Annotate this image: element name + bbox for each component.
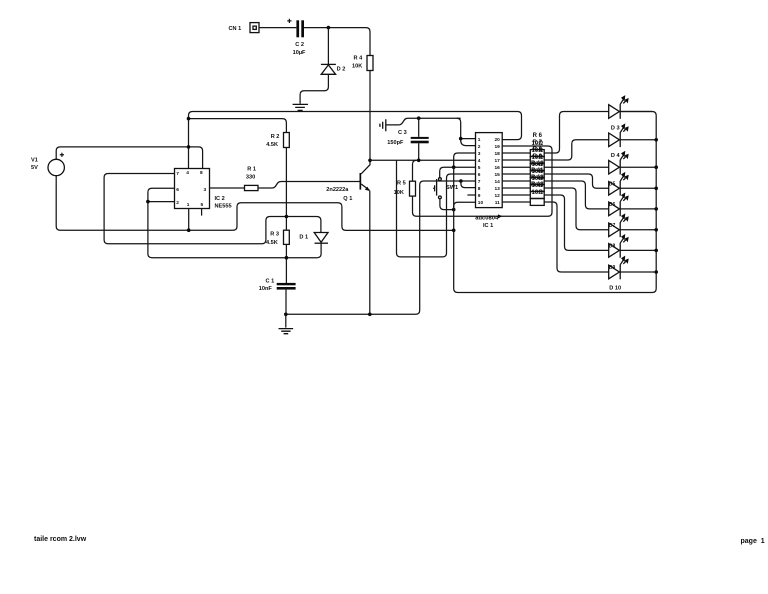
svg-text:7: 7 [176,171,179,177]
resistor R13 [530,182,544,205]
svg-text:D 4: D 4 [611,153,621,159]
svg-text:13: 13 [494,186,500,192]
svg-text:R 3: R 3 [270,231,279,237]
resistor R10 [530,161,544,184]
svg-text:page 1: page 1 [741,538,765,545]
LED D2 [609,95,653,119]
svg-text:10K: 10K [394,190,404,196]
LED D9 [609,256,657,280]
wire CN1 to C2 [259,27,296,29]
resistor R7 [530,140,544,163]
resistor R8 [530,147,544,170]
svg-text:8: 8 [478,186,481,192]
capacitor C3 [387,118,428,160]
svg-text:3: 3 [478,151,481,157]
svg-text:5V: 5V [31,165,38,171]
wire IC1 pin 3 to pin 5 node [454,153,476,167]
wire 555 pin 3 to R1 [210,187,245,189]
capacitor C1 [259,278,296,292]
svg-text:D 2: D 2 [337,66,346,72]
wire 555 pin 5 stub [201,209,203,216]
wire R4 to Q1 collector node [369,71,371,161]
svg-text:5: 5 [478,165,481,171]
svg-text:19: 19 [494,144,500,150]
svg-text:2n2222a: 2n2222a [326,187,349,193]
svg-text:6: 6 [478,172,481,178]
svg-text:11: 11 [495,200,500,206]
wire 555 pin 1 to ground bus [188,209,190,231]
wire clock node to IC1 pin 4 [370,159,476,161]
wire R1 to Q1 base [258,182,360,189]
wire 555 pin 7 to R3 top and D1 (bus D) [104,174,321,244]
svg-text:4: 4 [186,170,189,176]
LED D5 [609,172,657,196]
node pin 7 junction [459,179,463,183]
wire IC1 pin 10 to SW1 bottom node [454,202,476,209]
svg-text:6: 6 [176,187,179,193]
svg-text:V1: V1 [31,158,38,164]
resistor R1 [245,166,259,190]
node pins 2-6 junction [146,200,150,204]
wire SW1 bottom to ground column [440,199,454,210]
node LED return D3 [654,138,658,142]
svg-text:R 10: R 10 [531,161,544,167]
resistor R4 [352,56,373,71]
connector CN1 [229,23,260,33]
svg-text:16: 16 [494,165,500,171]
wire IC1 pin 9 stub [467,194,475,196]
wire node to D2 [327,28,329,65]
node LED return D8 [654,249,658,253]
wire V1+ to 555 pins 4 and 8 [56,147,202,169]
svg-text:R 5: R 5 [397,180,406,186]
node IC1 pin 1 junction [459,137,463,141]
svg-text:10: 10 [478,200,484,206]
svg-text:5: 5 [201,202,204,208]
wire R9 to LED D5 [544,174,609,188]
node LED return D4 [654,165,658,169]
svg-text:C 1: C 1 [266,278,275,284]
wire SW1 top to IC1 pin 5 [440,167,476,178]
wire R6 to LED D2 [544,112,609,154]
diode D2 [321,64,345,74]
node LED return D9 [654,270,658,274]
svg-text:IC 2: IC 2 [215,196,225,202]
wire R11 to LED D7 [544,188,609,230]
svg-text:R 9: R 9 [533,154,543,160]
wire ground column to LED return bus [454,112,657,293]
wire V+ rail (line A to IC1 pin 20) [189,112,522,169]
svg-text:IC 1: IC 1 [483,223,493,229]
node LED return D7 [654,228,658,232]
svg-text:10K: 10K [352,63,362,69]
svg-text:9: 9 [478,193,481,199]
svg-text:3: 3 [204,187,207,193]
svg-text:18: 18 [494,151,500,157]
svg-text:R 2: R 2 [271,134,280,140]
resistor R11 [530,168,544,191]
node Q1 emitter junction [368,313,372,317]
svg-text:R 1: R 1 [247,166,256,172]
node V1+ tee [187,145,191,149]
svg-text:8: 8 [200,170,203,176]
svg-text:17: 17 [494,158,500,164]
svg-text:R 4: R 4 [354,56,364,62]
svg-text:4.5K: 4.5K [266,142,278,148]
svg-text:2: 2 [176,200,179,206]
svg-text:R 8: R 8 [533,147,543,153]
wire R8 to LED D4 [544,166,609,168]
LED D3 [609,123,657,147]
ground (D2) [293,104,308,110]
wire ground bus (C1 to Q1 emitter to IC1 pins 7-8) [286,185,420,314]
svg-text:150pF: 150pF [387,140,404,146]
svg-text:7: 7 [478,179,481,185]
node ground bus C junction [452,229,456,233]
node C2/D2/R4 junction [327,26,331,30]
svg-text:R 12: R 12 [531,175,544,181]
wires IC1 pins 18-11 to resistor network [502,153,530,202]
wire R7 to LED D3 [544,140,609,160]
wire D1 cathode to bus E [317,243,321,258]
svg-text:CN 1: CN 1 [229,26,242,32]
svg-text:2: 2 [478,144,481,150]
node line B tee [187,117,191,121]
svg-text:4: 4 [478,158,481,164]
diode D1 [299,233,328,244]
svg-text:C 3: C 3 [398,130,407,136]
wire R10 to LED D6 [544,181,609,209]
svg-text:SW1: SW1 [446,185,458,191]
wire R3 bottom to C1 [285,244,287,283]
node R3 top junction [285,215,289,219]
resistor R6 [530,133,544,156]
node pin 5 junction [452,165,456,169]
voltage source V1 [31,153,64,176]
svg-text:R 11: R 11 [531,168,544,174]
svg-text:330: 330 [246,175,255,181]
node C3 bottom junction [417,159,421,163]
node Q1 collector junction [368,159,372,163]
node 555 pin 1 junction [187,228,191,232]
transistor Q1 2n2222a [326,160,370,314]
svg-text:C 2: C 2 [295,42,304,48]
wire V+ to R2 (line B) [189,119,287,133]
svg-text:1: 1 [187,202,190,208]
wire R12 to LED D8 [544,195,609,250]
wire 555 pins 2 and 6 to C1 node (bus E) [148,188,317,257]
node R3 bottom junction [285,256,289,260]
wire C3 node to IC1 pins 1 and 2 [457,118,476,145]
capacitor C2 [287,19,306,56]
LED D8 [609,234,657,258]
svg-text:1: 1 [478,137,481,143]
wire R13 to LED D9 [544,202,609,272]
LED D7 [609,213,657,237]
resistor R5 [394,160,417,196]
svg-text:D 1: D 1 [299,235,308,241]
svg-text:14: 14 [494,179,500,185]
wire D2 to ground [300,74,328,104]
svg-text:NE555: NE555 [215,204,232,210]
node LED return D6 [654,207,658,211]
IC 555 IC2 [175,169,232,210]
svg-text:15: 15 [494,172,500,178]
wire C1 to ground bus [285,290,287,315]
resistor R9 [530,154,544,177]
svg-text:20: 20 [494,137,500,143]
svg-text:adc0804: adc0804 [475,215,499,221]
IC1 adc0804 [475,133,502,229]
svg-text:10Ω: 10Ω [532,190,544,196]
wire IC1 pins 7 and 8 to ground [420,181,476,188]
ground (C3) and wire to C3 top node [380,118,461,131]
resistor R12 [530,175,544,198]
ground (C1) [279,314,294,333]
LED D4 [609,151,657,175]
wire clock node to IC1 pin 6 [397,160,476,257]
svg-text:12: 12 [494,193,500,199]
wire V1- ground loop (bus C) [56,176,454,231]
svg-text:10µF: 10µF [293,50,306,56]
node C3 top junction [417,116,421,120]
resistor R2 [266,133,289,148]
svg-text:D 10: D 10 [609,285,621,291]
LED D6 [609,193,657,217]
wire R2 to R3 top node [285,148,287,231]
node SW1 bottom junction [452,208,456,212]
svg-text:R 13: R 13 [531,182,544,188]
svg-text:Q 1: Q 1 [343,196,352,202]
svg-text:4.5K: 4.5K [266,240,278,246]
svg-text:D 3: D 3 [611,125,620,131]
resistor R3 [266,230,289,246]
svg-text:R 7: R 7 [533,140,543,146]
wire C2 to node and R4 [304,28,370,56]
svg-text:10nF: 10nF [259,286,273,292]
node C1 ground junction [284,313,288,317]
wire R5 bottom to IC1 pin 19 [413,146,553,216]
node LED return D5 [654,187,658,191]
svg-text:R 6: R 6 [533,133,543,139]
svg-text:taile rcom 2.lvw: taile rcom 2.lvw [34,536,87,543]
switch SW1 [433,178,458,199]
